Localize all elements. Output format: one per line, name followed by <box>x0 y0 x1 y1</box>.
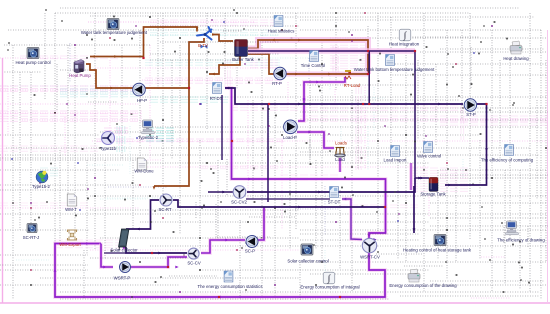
svg-text:Heat statistics: Heat statistics <box>268 29 295 34</box>
svg-text:Time Control: Time Control <box>301 63 325 68</box>
svg-text:SC-RT: SC-RT <box>158 207 171 212</box>
svg-text:Type65c-2: Type65c-2 <box>138 135 159 140</box>
svg-text:RT-P: RT-P <box>272 81 282 86</box>
svg-text:Type11b: Type11b <box>100 146 117 151</box>
svg-text:Heat drawing: Heat drawing <box>503 56 529 61</box>
svg-text:The efficiency of computing: The efficiency of computing <box>481 158 534 163</box>
svg-text:Heat pump control: Heat pump control <box>15 60 50 65</box>
svg-text:Energy consumption of the draw: Energy consumption of the drawing <box>389 283 457 288</box>
svg-text:Water tank temperature judgeme: Water tank temperature judgement <box>81 30 148 35</box>
svg-text:Loads: Loads <box>335 141 347 146</box>
svg-text:Heat integration: Heat integration <box>389 42 420 47</box>
svg-text:Heating control of heat storag: Heating control of heat storage tank <box>403 248 472 253</box>
svg-text:The efficiency of drawing: The efficiency of drawing <box>497 238 545 243</box>
svg-text:WM-Done: WM-Done <box>134 169 154 174</box>
svg-text:WSRT-CV: WSRT-CV <box>360 255 380 260</box>
svg-text:RT-Load: RT-Load <box>344 83 361 88</box>
svg-text:Type15-2: Type15-2 <box>32 184 51 189</box>
svg-text:ST-DT: ST-DT <box>328 200 341 205</box>
svg-text:SC-CV2: SC-CV2 <box>231 200 247 205</box>
svg-text:The energy consumption statist: The energy consumption statistics <box>198 284 263 289</box>
svg-text:SC-P: SC-P <box>245 249 255 254</box>
svg-text:RT-DT: RT-DT <box>210 96 223 101</box>
svg-text:B-TV: B-TV <box>198 43 208 48</box>
svg-text:Valve control: Valve control <box>417 154 442 159</box>
svg-text:Heat Pump: Heat Pump <box>69 73 91 78</box>
svg-text:WM-T: WM-T <box>65 207 77 212</box>
svg-text:Buffer Tank: Buffer Tank <box>232 57 254 62</box>
svg-text:Energy consumption of integral: Energy consumption of integral <box>300 284 359 289</box>
svg-text:Load: Load <box>335 157 345 162</box>
svg-text:WSRT-P: WSRT-P <box>114 276 131 281</box>
svg-text:Load Import: Load Import <box>384 158 408 163</box>
svg-text:Storage Tank: Storage Tank <box>420 192 446 197</box>
svg-text:Solar collector: Solar collector <box>110 248 138 253</box>
svg-text:SC-RT-J: SC-RT-J <box>23 235 39 240</box>
svg-text:HP-P: HP-P <box>137 98 147 103</box>
svg-text:ST-P: ST-P <box>466 112 476 117</box>
svg-text:SC-CV: SC-CV <box>187 261 201 266</box>
svg-text:Load-P: Load-P <box>283 135 297 140</box>
svg-text:Water tank bottom temperature: Water tank bottom temperature judgement <box>354 67 435 72</box>
svg-text:Solar collector control: Solar collector control <box>287 259 328 264</box>
svg-text:WM-Export: WM-Export <box>59 242 81 247</box>
